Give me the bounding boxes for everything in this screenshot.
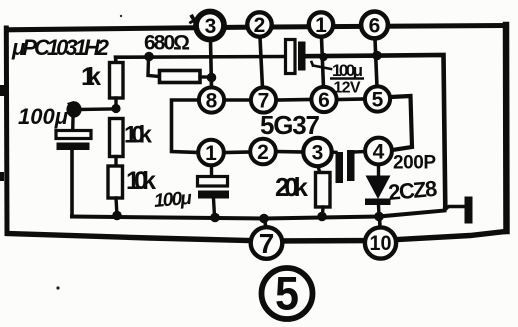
svg-text:3: 3: [312, 142, 324, 165]
svg-text:100μ: 100μ: [18, 104, 68, 129]
svg-text:100μ: 100μ: [153, 188, 193, 212]
svg-text:5G37: 5G37: [260, 110, 320, 140]
svg-text:1: 1: [205, 142, 217, 165]
svg-text:6: 6: [369, 15, 381, 38]
svg-text:2: 2: [257, 141, 269, 164]
svg-text:1: 1: [315, 14, 327, 37]
svg-text:5: 5: [275, 267, 299, 320]
svg-text:12V: 12V: [334, 80, 361, 97]
svg-text:10k: 10k: [124, 122, 153, 149]
svg-text:20k: 20k: [275, 172, 309, 202]
svg-text:4: 4: [373, 141, 385, 164]
svg-text:680Ω: 680Ω: [144, 32, 190, 55]
svg-text:5: 5: [372, 89, 384, 112]
svg-text:6: 6: [318, 89, 330, 112]
svg-text:10k: 10k: [126, 167, 156, 195]
svg-text:100μ: 100μ: [332, 61, 363, 80]
svg-text:μPC1031H2: μPC1031H2: [11, 35, 110, 60]
svg-text:10: 10: [370, 232, 392, 255]
svg-text:7: 7: [259, 228, 275, 259]
svg-text:2CZ8: 2CZ8: [387, 176, 438, 205]
svg-text:3: 3: [205, 15, 217, 38]
svg-text:200P: 200P: [393, 153, 436, 174]
svg-text:2: 2: [254, 14, 266, 37]
svg-text:1k: 1k: [81, 63, 101, 91]
svg-text:8: 8: [206, 90, 218, 113]
